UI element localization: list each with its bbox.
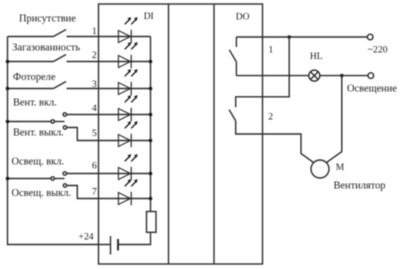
svg-text:Освещ. выкл.: Освещ. выкл. — [12, 188, 72, 199]
svg-text:~220: ~220 — [368, 44, 388, 55]
svg-text:3: 3 — [92, 79, 97, 90]
svg-text:+24: +24 — [79, 231, 94, 242]
svg-text:HL: HL — [310, 52, 323, 62]
svg-text:Освещ. вкл.: Освещ. вкл. — [12, 157, 65, 168]
svg-text:M: M — [336, 163, 345, 173]
svg-text:7: 7 — [92, 186, 97, 197]
svg-text:5: 5 — [92, 128, 97, 139]
svg-text:DO: DO — [236, 13, 250, 23]
svg-text:Загазованность: Загазованность — [12, 43, 80, 54]
svg-text:Вент. вкл.: Вент. вкл. — [13, 98, 57, 109]
svg-text:Вентилятор: Вентилятор — [334, 181, 386, 192]
svg-text:1: 1 — [269, 45, 274, 55]
svg-text:Присутствие: Присутствие — [19, 14, 76, 25]
svg-text:1: 1 — [92, 26, 97, 37]
svg-text:Вент. выкл.: Вент. выкл. — [13, 128, 64, 139]
svg-text:2: 2 — [268, 113, 273, 123]
svg-text:6: 6 — [92, 160, 97, 171]
svg-text:Фотореле: Фотореле — [13, 72, 56, 83]
svg-text:4: 4 — [92, 103, 97, 114]
svg-text:Освещение: Освещение — [347, 83, 397, 94]
svg-text:DI: DI — [144, 12, 154, 22]
svg-text:2: 2 — [92, 50, 97, 61]
